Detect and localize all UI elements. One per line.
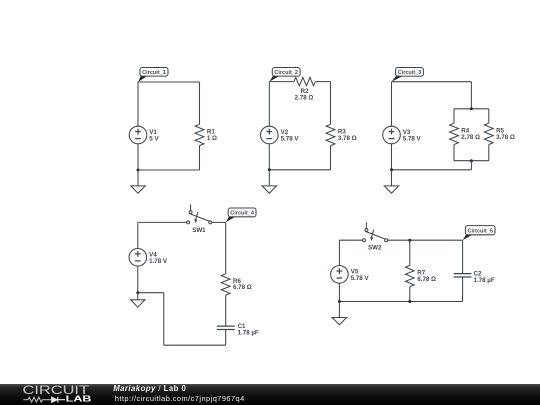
label R5 value	[496, 128, 515, 141]
svg-text:SW2: SW2	[368, 245, 382, 252]
svg-text:Circuit_2: Circuit_2	[274, 70, 298, 76]
wire C2 top lead	[462, 240, 464, 273]
svg-text:6.78 Ω: 6.78 Ω	[233, 284, 252, 291]
voltage source V5	[331, 266, 349, 284]
wire R6 to C1	[225, 295, 227, 326]
capacitor C1	[217, 326, 235, 329]
footer title	[113, 384, 186, 393]
label R7 value	[417, 269, 436, 282]
wire R4 top lead	[453, 109, 455, 123]
wire left lower	[391, 144, 393, 170]
wire V5 top up	[338, 240, 340, 265]
label V5 value	[351, 269, 370, 282]
wire right upper	[330, 82, 332, 125]
resistor R1	[195, 124, 204, 145]
wire right upper	[199, 82, 201, 124]
footer bar	[0, 384, 540, 405]
svg-text:LAB: LAB	[66, 395, 92, 404]
wire R7 bottom lead	[409, 287, 411, 302]
wire R4 bottom lead	[453, 145, 455, 161]
wire to SW1	[138, 221, 187, 223]
voltage source V1	[129, 126, 147, 144]
wire V5 bottom	[338, 283, 340, 301]
svg-text:1.78 µF: 1.78 µF	[238, 329, 259, 336]
voltage source V4	[129, 248, 147, 266]
junction parallel top	[470, 107, 473, 110]
wire to ground node	[138, 292, 164, 294]
svg-text:2.78 Ω: 2.78 Ω	[295, 95, 314, 102]
junction bottom-left C1	[137, 169, 140, 172]
label V2 value	[281, 129, 300, 142]
label C1 value	[238, 323, 259, 336]
wire left upper	[268, 82, 270, 127]
wire left upper	[391, 82, 393, 127]
svg-text:1.78 V: 1.78 V	[149, 258, 168, 265]
label R4 value	[461, 128, 480, 141]
wire top-right segment	[315, 81, 330, 83]
resistor R7	[405, 265, 414, 286]
wire top-left segment	[269, 81, 294, 83]
resistor R5	[484, 123, 493, 144]
wire right down to R6	[225, 222, 227, 273]
svg-text:3.78 Ω: 3.78 Ω	[338, 135, 357, 142]
wire SW2 to corner	[388, 239, 463, 241]
junction R7 bottom	[408, 300, 411, 303]
svg-text:5.78 V: 5.78 V	[351, 275, 370, 282]
wire bottom	[392, 169, 472, 171]
svg-text:Cirtcuit_5: Cirtcuit_5	[468, 229, 494, 235]
CircuitLab logo wordmark	[0, 384, 110, 405]
junction bottom-left C3	[390, 168, 393, 171]
wire R5 bottom lead	[488, 145, 490, 161]
wire to SW2	[339, 239, 362, 241]
wire bottom	[164, 344, 226, 346]
svg-text:6.78 Ω: 6.78 Ω	[417, 276, 436, 283]
ground	[262, 170, 276, 193]
wire R5 top lead	[488, 109, 490, 123]
node label Circuit_4	[226, 208, 256, 222]
ground	[384, 170, 398, 193]
svg-text:5.78 V: 5.78 V	[403, 136, 422, 143]
label V4 value	[149, 251, 168, 264]
node label Circuit_1	[138, 68, 168, 83]
label V1 value	[149, 129, 159, 142]
svg-text:1.78 µF: 1.78 µF	[474, 277, 495, 284]
voltage source V3	[383, 126, 401, 144]
label R2 value	[295, 88, 314, 101]
ground	[332, 302, 346, 325]
node label Circuit_2	[269, 68, 300, 82]
svg-text:3.78 Ω: 3.78 Ω	[496, 134, 515, 141]
wire bottom	[339, 301, 462, 303]
junction ground node C5	[338, 300, 341, 303]
node label Cirtcuit_5	[463, 226, 495, 241]
wire V4 top up	[137, 222, 139, 248]
wire R7 top lead	[409, 240, 411, 265]
wire left upper	[137, 82, 139, 126]
logo resistor-diode glyph	[23, 398, 51, 403]
label C2 value	[474, 271, 495, 284]
wire parallel to bottom	[470, 161, 472, 170]
wire top C1 loop	[138, 81, 200, 83]
wire right lower	[330, 146, 332, 170]
resistor R3	[326, 124, 335, 145]
svg-text:5.78 V: 5.78 V	[281, 136, 300, 143]
wire left riser	[163, 293, 165, 346]
ground	[131, 293, 145, 307]
wire C1 to bottom	[225, 330, 227, 346]
label R6 value	[233, 278, 252, 291]
svg-text:1 Ω: 1 Ω	[207, 135, 217, 142]
voltage source V2	[261, 126, 279, 144]
label R1 value	[207, 129, 217, 142]
svg-text:SW1: SW1	[192, 227, 206, 234]
ground	[131, 170, 145, 193]
wire bottom	[269, 169, 330, 171]
switch SW2	[362, 222, 387, 241]
label V3 value	[403, 129, 422, 142]
svg-text:Circuit_3: Circuit_3	[398, 70, 422, 76]
capacitor C2	[454, 274, 472, 277]
junction bottom-left C2	[268, 168, 271, 171]
wire bottom	[138, 169, 200, 171]
wire parallel top bar	[454, 108, 489, 110]
resistor R2	[294, 77, 315, 85]
svg-text:2.78 Ω: 2.78 Ω	[461, 134, 480, 141]
footer url	[115, 394, 245, 403]
resistor R6	[221, 274, 230, 295]
junction ground node C4	[136, 291, 139, 294]
wire C2 bottom lead	[462, 277, 464, 302]
junction R7 top	[408, 239, 411, 242]
node label Circuit_3	[392, 68, 424, 82]
wire parallel bottom bar	[454, 160, 489, 162]
svg-text:Circuit_1: Circuit_1	[142, 70, 167, 76]
svg-text:5 V: 5 V	[149, 136, 159, 143]
wire V4 bottom	[137, 266, 139, 293]
wire left lower	[268, 144, 270, 170]
switch SW1	[187, 204, 212, 223]
label R3 value	[338, 129, 357, 142]
svg-text:Circuit_4: Circuit_4	[230, 211, 254, 217]
wire right drop	[470, 82, 472, 109]
wire left lower	[137, 144, 139, 170]
junction parallel bottom	[470, 159, 473, 162]
resistor R4	[450, 123, 459, 144]
wire right lower	[199, 146, 201, 170]
wire top	[392, 81, 472, 83]
wire SW1 to corner	[212, 221, 226, 223]
